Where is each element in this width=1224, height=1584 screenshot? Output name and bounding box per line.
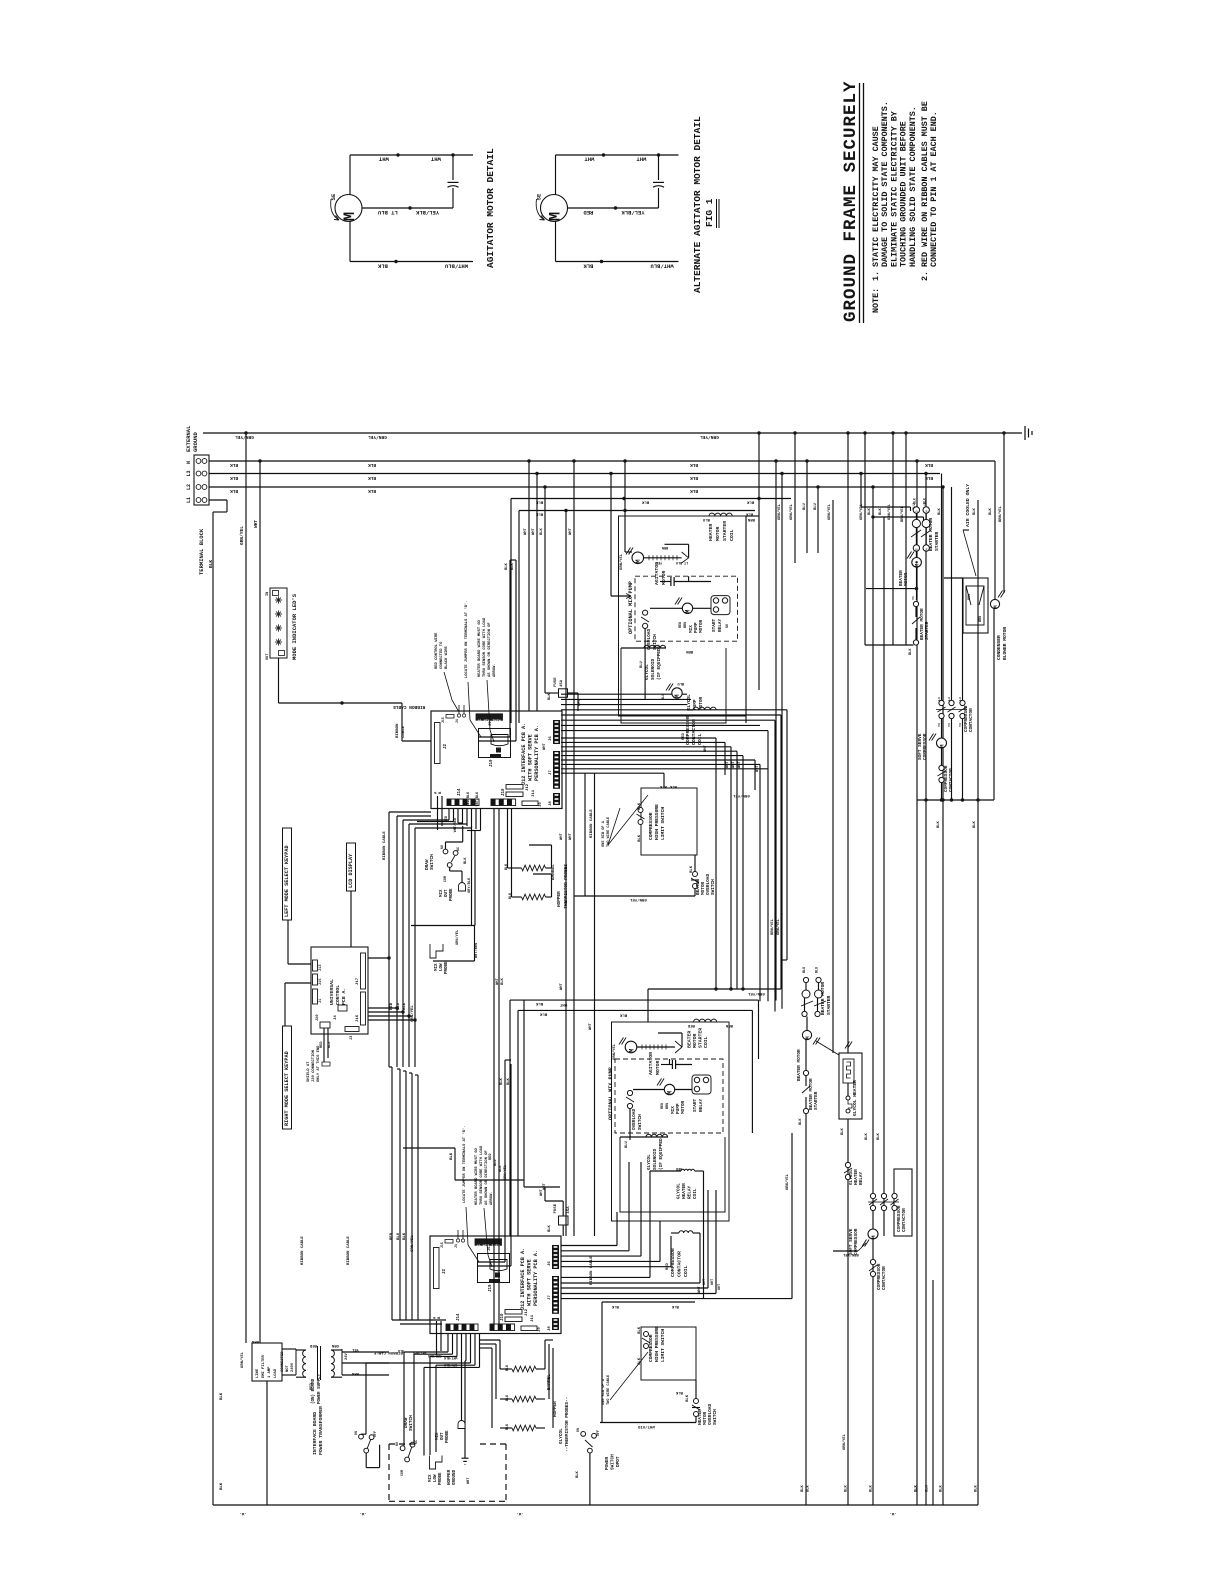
optional mix pump dashed box 2 (615, 1059, 723, 1133)
svg-text:HEATER BOARD WIRE MUST GO: HEATER BOARD WIRE MUST GO (478, 619, 482, 677)
svg-text:FUSE: FUSE (554, 1203, 558, 1213)
svg-text:BLU: BLU (816, 967, 820, 973)
svg-text:WHT: WHT (636, 156, 647, 163)
svg-text:BLK: BLK (690, 475, 698, 481)
svg-text:RELAY: RELAY (688, 1185, 693, 1199)
svg-text:MOTOR: MOTOR (655, 1060, 661, 1075)
svg-text:THRU SENSOR CORE WITH LOAD: THRU SENSOR CORE WITH LOAD (480, 1145, 484, 1205)
svg-text:BLK: BLK (926, 1484, 930, 1492)
svg-text:BRN: BRN (968, 594, 972, 600)
svg-text:J15: J15 (319, 979, 323, 985)
svg-text:HEATER: HEATER (708, 524, 714, 541)
svg-text:COIL: COIL (703, 1036, 709, 1048)
optional mix pump dashed box 1 (635, 576, 738, 641)
svg-text:WHT: WHT (711, 1279, 715, 1285)
draw switch 1 (443, 849, 448, 854)
compressor contactor 2 box (894, 1169, 912, 1236)
interface board power transformer (295, 1349, 297, 1375)
svg-text:TWO WIRE CABLE: TWO WIRE CABLE (607, 816, 611, 847)
svg-text:FIG 1: FIG 1 (704, 198, 715, 227)
svg-text:J9: J9 (539, 802, 543, 807)
glycol thermistor probes (512, 1366, 536, 1372)
svg-text:MIX: MIX (436, 1432, 440, 1440)
svg-text:J19: J19 (489, 1284, 493, 1292)
agitator motor 1 (632, 552, 644, 564)
svg-text:BLK: BLK (576, 1470, 580, 1478)
svg-text:WHT: WHT (698, 1285, 702, 1293)
svg-text:WHT: WHT (543, 1182, 547, 1190)
interface PCB 2 box (430, 1236, 561, 1334)
svg-text:FUSE: FUSE (554, 677, 558, 687)
svg-text:BLK: BLK (403, 1002, 407, 1010)
compressor contactor coil 2 (679, 1231, 693, 1233)
connector J12 slot 2 (505, 1310, 522, 1315)
svg-text:BLK: BLK (671, 1304, 679, 1308)
svg-text:J1: J1 (319, 999, 323, 1003)
compressor contactor 1 aux (939, 765, 944, 770)
svg-text:L4: L4 (925, 510, 928, 514)
J14 wires down to junction line (471, 826, 473, 926)
pin strip J7 1 (553, 751, 560, 789)
svg-text:BRN: BRN (662, 545, 668, 549)
svg-text:J2: J2 (443, 1268, 447, 1274)
svg-text:J3: J3 (350, 1036, 354, 1040)
svg-text:N: N (186, 461, 192, 464)
svg-text:SWITCH: SWITCH (653, 634, 658, 650)
svg-text:ALTERNATE AGITATOR MOTOR DETAI: ALTERNATE AGITATOR MOTOR DETAIL (692, 116, 703, 293)
svg-text:BLK: BLK (638, 834, 642, 842)
svg-text:GLYCOL HEATER: GLYCOL HEATER (852, 1080, 858, 1116)
svg-text:EXTERNAL: EXTERNAL (185, 425, 192, 452)
svg-text:BLK: BLK (548, 692, 552, 700)
svg-text:BLU: BLU (803, 502, 807, 510)
svg-text:--THERMISTOR PROBES--: --THERMISTOR PROBES-- (565, 1397, 570, 1452)
wire - top WHT run (350, 154, 473, 156)
svg-text:WHT: WHT (578, 698, 582, 706)
svg-text:RED: RED (687, 1023, 695, 1027)
svg-text:M: M (939, 744, 946, 748)
svg-text:GRN/YEL: GRN/YEL (827, 503, 832, 520)
svg-text:-W-: -W- (359, 1511, 366, 1515)
svg-text:BLU: BLU (678, 681, 684, 685)
svg-text:BLU: BLU (397, 1232, 401, 1240)
beater motor starter 2 contact set (803, 977, 808, 982)
svg-text:AGITATOR: AGITATOR (654, 562, 660, 585)
svg-text:GRN/YEL: GRN/YEL (235, 434, 254, 440)
wires L3 L2 corners down to contactor 1 (941, 474, 943, 701)
svg-text:WHT: WHT (738, 760, 742, 768)
svg-text:BLK: BLK (669, 784, 677, 788)
connector J8 2 (552, 1318, 559, 1330)
svg-text:GRN/YEL: GRN/YEL (240, 1351, 245, 1368)
svg-text:LOAD: LOAD (274, 1368, 278, 1378)
svg-text:BLU: BLU (814, 502, 818, 510)
staircase turns to left (404, 1351, 448, 1353)
vertical drops of ladder wires (715, 738, 717, 989)
agitator motor leads (644, 557, 682, 559)
wire - L1 drop down left side (209, 499, 227, 501)
svg-text:WHT: WHT (467, 1477, 471, 1484)
svg-text:BLK: BLK (922, 498, 926, 504)
svg-text:L3: L3 (948, 697, 951, 701)
svg-text:J10: J10 (501, 1313, 505, 1321)
svg-text:RED: RED (661, 1103, 665, 1109)
thermal cutout agitator 1 (682, 552, 689, 558)
svg-text:M: M (341, 212, 359, 221)
svg-text:COM: COM (401, 1470, 405, 1476)
svg-text:CONTACTOR: CONTACTOR (969, 708, 974, 732)
svg-text:INTERFACE BOARD: INTERFACE BOARD (312, 1412, 318, 1455)
svg-text:WHT: WHT (559, 1002, 567, 1006)
svg-text:SWITCH: SWITCH (430, 854, 435, 870)
svg-text:NOTE:: NOTE: (871, 288, 881, 313)
connector J1 slot (313, 989, 318, 1004)
svg-text:WHT: WHT (703, 1279, 707, 1285)
svg-text:J17: J17 (356, 977, 360, 985)
svg-text:--THERMISTOR PROBES--: --THERMISTOR PROBES-- (564, 859, 569, 914)
svg-text:GRN/YEL: GRN/YEL (842, 1252, 859, 1257)
svg-text:RIBBON: RIBBON (396, 723, 400, 738)
svg-text:BLK: BLK (500, 1077, 504, 1085)
J7 wire ladder group 1 (561, 737, 716, 739)
mode indicator LEDs box (270, 588, 287, 658)
big solid box circuit group 2 (612, 1022, 730, 1221)
svg-text:MOTOR: MOTOR (699, 619, 704, 633)
svg-text:GRN/YEL: GRN/YEL (776, 918, 781, 935)
svg-text:RED: RED (390, 1002, 394, 1010)
svg-text:WHT: WHT (430, 156, 441, 163)
svg-text:BLK: BLK (328, 1041, 332, 1048)
svg-text:BLU: BLU (397, 1002, 401, 1010)
svg-text:PROBE: PROBE (445, 961, 449, 974)
one rib callout 2 (610, 1352, 648, 1400)
svg-text:(IF EQUIPPED): (IF EQUIPPED) (659, 1136, 664, 1170)
agitator motor 2 (625, 1041, 637, 1053)
svg-text:J11: J11 (531, 1314, 535, 1322)
svg-text:SWITCH: SWITCH (638, 1114, 643, 1130)
svg-text:RED: RED (445, 816, 449, 822)
mix pump motor 2 (664, 1084, 674, 1094)
wire - LCD display to UCB (350, 891, 352, 947)
wire - LED ribbon cable to interface pcb (278, 658, 280, 703)
mix low probe 1 (430, 944, 443, 958)
svg-text:YEL/BLK: YEL/BLK (415, 209, 439, 216)
svg-text:BLK: BLK (675, 1390, 683, 1394)
svg-text:BLK: BLK (973, 507, 977, 515)
svg-text:GLYCOL: GLYCOL (687, 694, 692, 710)
svg-text:STARTER: STARTER (698, 1028, 704, 1048)
wire starter 2 chain to bottom (805, 1114, 807, 1505)
svg-text:M: M (870, 1235, 877, 1239)
svg-text:WHT: WHT (253, 520, 259, 528)
svg-text:TERMINAL BLOCK: TERMINAL BLOCK (198, 528, 205, 575)
svg-text:WHT: WHT (560, 982, 564, 990)
svg-text:BLK: BLK (535, 1001, 543, 1005)
svg-text:M: M (547, 212, 565, 221)
wires transformer secondary (331, 1349, 342, 1351)
svg-text:MOTOR: MOTOR (661, 570, 667, 585)
svg-text:BLK: BLK (368, 475, 376, 481)
connector J8 1 (553, 793, 560, 805)
wires group1 box to right rail (746, 515, 759, 517)
svg-text:WHT: WHT (569, 832, 573, 840)
wire - bottom WHT/BLU run (556, 261, 679, 263)
svg-text:RELAY: RELAY (859, 1171, 864, 1185)
svg-text:HANDLING SOLID STATE COMPONENT: HANDLING SOLID STATE COMPONENTS. (908, 106, 918, 267)
svg-text:RELAY: RELAY (699, 1098, 704, 1112)
wire bundle from J7 group 2 (561, 1276, 650, 1278)
dashed enclosure bottom (389, 1500, 506, 1502)
svg-text:GRN/YEL: GRN/YEL (410, 1235, 415, 1252)
svg-text:BLK: BLK (690, 488, 698, 494)
agitator motor M (335, 195, 362, 222)
svg-text:OUT: OUT (441, 1432, 445, 1440)
svg-text:J2: J2 (444, 743, 448, 749)
svg-text:BEATER MOTOR: BEATER MOTOR (928, 518, 934, 551)
wire top rail to group1 box (511, 498, 791, 500)
wire - N bus (209, 460, 995, 462)
svg-text:MODE INDICATOR LED'S: MODE INDICATOR LED'S (291, 593, 298, 660)
box around glycol group 1 (621, 648, 726, 723)
svg-text:WHT/BLK: WHT/BLK (444, 1356, 457, 1360)
svg-text:J4: J4 (454, 1244, 458, 1248)
wire into glycol heater from starter area (816, 1041, 839, 1055)
svg-text:LIMIT SWITCH: LIMIT SWITCH (660, 807, 666, 840)
beater motor starter coil 2 (694, 1019, 717, 1022)
svg-text:LOW: LOW (440, 963, 444, 971)
svg-text:GRN/YEL: GRN/YEL (619, 553, 624, 570)
svg-text:ARROW.: ARROW. (493, 663, 497, 677)
glycol heater box (839, 1053, 862, 1119)
glycol pump motor 1 (672, 688, 682, 698)
svg-text:J8: J8 (549, 801, 553, 806)
condenser blower motor M (990, 599, 999, 608)
svg-text:BRN: BRN (684, 622, 688, 628)
svg-text:BLK: BLK (511, 562, 515, 570)
svg-text:J10: J10 (502, 788, 506, 796)
svg-text:RED: RED (309, 1343, 317, 1347)
svg-text:GROUND: GROUND (453, 1469, 457, 1485)
svg-text:START: START (693, 1098, 698, 1112)
svg-text:BLU: BLU (640, 660, 644, 668)
wire - top WHT run (556, 154, 679, 156)
svg-text:BLK: BLK (989, 507, 993, 515)
svg-text:POWER: POWER (605, 1456, 610, 1470)
svg-text:BLK: BLK (506, 1394, 510, 1401)
svg-text:BLK: BLK (865, 1132, 869, 1140)
svg-text:LOW: LOW (434, 1474, 438, 1482)
connector J4 pins 2 (456, 1239, 459, 1242)
svg-text:J7: J7 (548, 1295, 552, 1300)
svg-text:DPDT: DPDT (616, 1456, 621, 1467)
svg-text:GRN/YEL: GRN/YEL (777, 503, 782, 520)
svg-text:BLU: BLU (494, 1160, 498, 1166)
grn/yel riser right (791, 1133, 793, 1299)
overload switch 2 (627, 1090, 632, 1095)
beater motor starter 1 aux contact (913, 601, 918, 606)
label box LCD DISPLAY (347, 843, 356, 891)
svg-text:-W-: -W- (516, 1511, 523, 1515)
svg-text:ON: ON (577, 1428, 581, 1432)
svg-text:EMI FILTER: EMI FILTER (262, 1354, 266, 1378)
svg-text:J15: J15 (440, 1242, 444, 1248)
svg-text:BARREL: BARREL (547, 1374, 552, 1390)
svg-text:RED: RED (310, 1382, 314, 1390)
condenser blower assembly (963, 578, 988, 633)
svg-text:GLYCOL: GLYCOL (647, 1154, 652, 1170)
soft serve compressor 2 (868, 1229, 878, 1239)
svg-text:BLK: BLK (909, 648, 913, 655)
svg-text:PROBE: PROBE (446, 1430, 450, 1443)
svg-text:J8: J8 (548, 1326, 552, 1331)
svg-text:START: START (712, 618, 717, 632)
fuse 15A group 2 (559, 1216, 569, 1225)
svg-text:RELAY: RELAY (718, 618, 723, 632)
svg-text:WHT/BRN: WHT/BRN (474, 943, 479, 958)
wire second rail group1 (519, 510, 755, 512)
svg-text:RED: RED (679, 622, 683, 628)
svg-text:AS SHOWN OR DIRECTION OF: AS SHOWN OR DIRECTION OF (488, 622, 492, 677)
svg-text:HOPPER: HOPPER (557, 891, 562, 907)
svg-text:J16: J16 (356, 1014, 360, 1022)
svg-text:PROBE: PROBE (450, 888, 454, 901)
svg-text:GRN/YEL: GRN/YEL (789, 503, 794, 520)
svg-text:LIMIT SWITCH: LIMIT SWITCH (660, 1329, 666, 1362)
svg-text:BLK: BLK (539, 1012, 547, 1016)
svg-text:GRN/YEL: GRN/YEL (410, 1005, 415, 1022)
svg-text:BLK: BLK (220, 1392, 224, 1400)
svg-text:ONLY AT THIS END: ONLY AT THIS END (317, 1045, 321, 1082)
svg-text:MIX: MIX (440, 889, 444, 897)
connector J4 pins 1 (457, 714, 460, 717)
wires transformer primary (282, 1348, 296, 1350)
agitator motor M (541, 195, 568, 222)
svg-text:HIGH PRESSURE: HIGH PRESSURE (654, 1326, 660, 1362)
svg-text:THRU SENSOR CORE WITH LOAD: THRU SENSOR CORE WITH LOAD (483, 617, 487, 677)
beater motor 2 (802, 1030, 811, 1039)
svg-text:BLK: BLK (230, 475, 238, 481)
auto heat switch power dpdt (581, 1432, 586, 1437)
svg-text:1.: 1. (871, 271, 881, 281)
svg-text:M: M (667, 1090, 674, 1094)
connector J2 slot 1 (435, 723, 441, 764)
beater motor starter 2 aux contact (803, 1070, 808, 1075)
svg-text:RED/BLK: RED/BLK (428, 1354, 441, 1358)
svg-text:AGITATOR MOTOR DETAIL: AGITATOR MOTOR DETAIL (485, 148, 496, 268)
svg-text:BLK: BLK (499, 1165, 503, 1172)
connector J19 buzzer 2 (478, 1254, 510, 1283)
svg-text:CONTROL: CONTROL (335, 985, 341, 1005)
svg-text:HOPPER: HOPPER (553, 1401, 558, 1417)
svg-text:GRN/YEL: GRN/YEL (368, 434, 387, 440)
svg-text:RIBBON CABLE: RIBBON CABLE (301, 1236, 305, 1265)
svg-text:LT BLU: LT BLU (676, 560, 688, 564)
svg-text:BLK: BLK (611, 1304, 619, 1308)
one rib of a two wire cable callouts 1 (608, 795, 648, 845)
svg-text:J12 INTERFACE PCB A.: J12 INTERFACE PCB A. (520, 1248, 526, 1310)
svg-text:WHT/RED: WHT/RED (413, 1351, 426, 1355)
wires from J14 1 down to staircase (448, 809, 450, 820)
svg-text:BLK: BLK (506, 1423, 510, 1430)
svg-text:WHT: WHT (532, 527, 536, 535)
svg-text:BLK: BLK (583, 263, 594, 270)
overload switch 1 (643, 610, 648, 615)
wires into glycol heater (845, 1042, 850, 1049)
compressor contactor coil 1 (693, 707, 716, 710)
svg-text:M: M (674, 694, 681, 698)
wire - GRN/YEL drop to EMI filter (245, 433, 247, 1343)
svg-text:RED/BLK: RED/BLK (466, 791, 471, 806)
svg-text:BLK: BLK (450, 1152, 454, 1160)
svg-text:J20 CONNECTION: J20 CONNECTION (312, 1049, 316, 1082)
svg-text:GRN/YEL: GRN/YEL (747, 991, 764, 996)
connector J2 slot 2 (434, 1248, 440, 1289)
svg-text:BLK: BLK (690, 865, 694, 873)
svg-text:MINI DIN 6F: MINI DIN 6F (476, 1242, 500, 1246)
svg-text:BLK: BLK (925, 462, 933, 468)
mix out probe 2 (458, 1421, 465, 1429)
pin header J10 2 (490, 1324, 515, 1331)
wire lowest J7 into pressure switch box (663, 773, 665, 788)
pin strip J6 2 (552, 1245, 559, 1269)
svg-text:BLK: BLK (940, 1484, 944, 1492)
svg-text:BLK: BLK (868, 507, 872, 515)
svg-text:CONTACTOR: CONTACTOR (902, 1208, 907, 1232)
connector MINI DIN 6F 2 (475, 1239, 502, 1246)
svg-text:MIX: MIX (435, 963, 439, 971)
svg-text:COIL: COIL (693, 1188, 698, 1199)
svg-text:L3: L3 (959, 697, 962, 701)
svg-text:WHT: WHT (496, 977, 500, 985)
svg-text:COIL: COIL (697, 733, 703, 745)
svg-text:BLU: BLU (702, 517, 710, 521)
svg-text:M: M (993, 605, 999, 608)
svg-text:PCB A.: PCB A. (341, 988, 347, 1005)
wire from on-off switch (365, 1453, 367, 1468)
svg-text:RED: RED (676, 1166, 682, 1170)
svg-text:T3: T3 (959, 723, 962, 727)
glycol solenoid 2 (620, 1136, 668, 1138)
svg-text:ON: ON (355, 1431, 359, 1435)
svg-text:BRN: BRN (666, 1103, 670, 1109)
draw switch wires (445, 842, 447, 849)
svg-text:ARROW.: ARROW. (490, 1191, 494, 1205)
svg-text:BLK: BLK (505, 863, 509, 870)
svg-text:BLK: BLK (745, 512, 753, 516)
pin strip J6 1 (553, 720, 560, 744)
svg-text:BLK: BLK (505, 562, 509, 570)
connector J3 slot (345, 1027, 359, 1032)
connector J13 slot (313, 960, 318, 971)
svg-text:ORN: ORN (331, 1343, 339, 1347)
interconnect jog mid page (523, 1000, 525, 1187)
svg-text:BRN/YEL: BRN/YEL (770, 918, 775, 935)
compressor contactor 1 contacts (939, 700, 944, 705)
glycol heater 2 contacts (842, 1157, 844, 1159)
svg-text:COMPRESSOR: COMPRESSOR (923, 733, 928, 760)
svg-text:CONDENSER: CONDENSER (996, 635, 1002, 660)
svg-text:SWITCH: SWITCH (713, 1409, 718, 1425)
svg-text:GRN/YEL: GRN/YEL (785, 1173, 790, 1190)
svg-text:WHT/BLU: WHT/BLU (651, 263, 674, 270)
svg-text:GRN/YEL: GRN/YEL (239, 526, 245, 545)
svg-text:COM: COM (444, 876, 448, 882)
svg-text:BLK: BLK (870, 1484, 874, 1492)
svg-text:SWITCH: SWITCH (711, 879, 716, 895)
svg-text:BRN/YEL: BRN/YEL (998, 505, 1003, 522)
svg-text:BRN: BRN (351, 1371, 359, 1375)
svg-text:WHT: WHT (584, 156, 595, 163)
